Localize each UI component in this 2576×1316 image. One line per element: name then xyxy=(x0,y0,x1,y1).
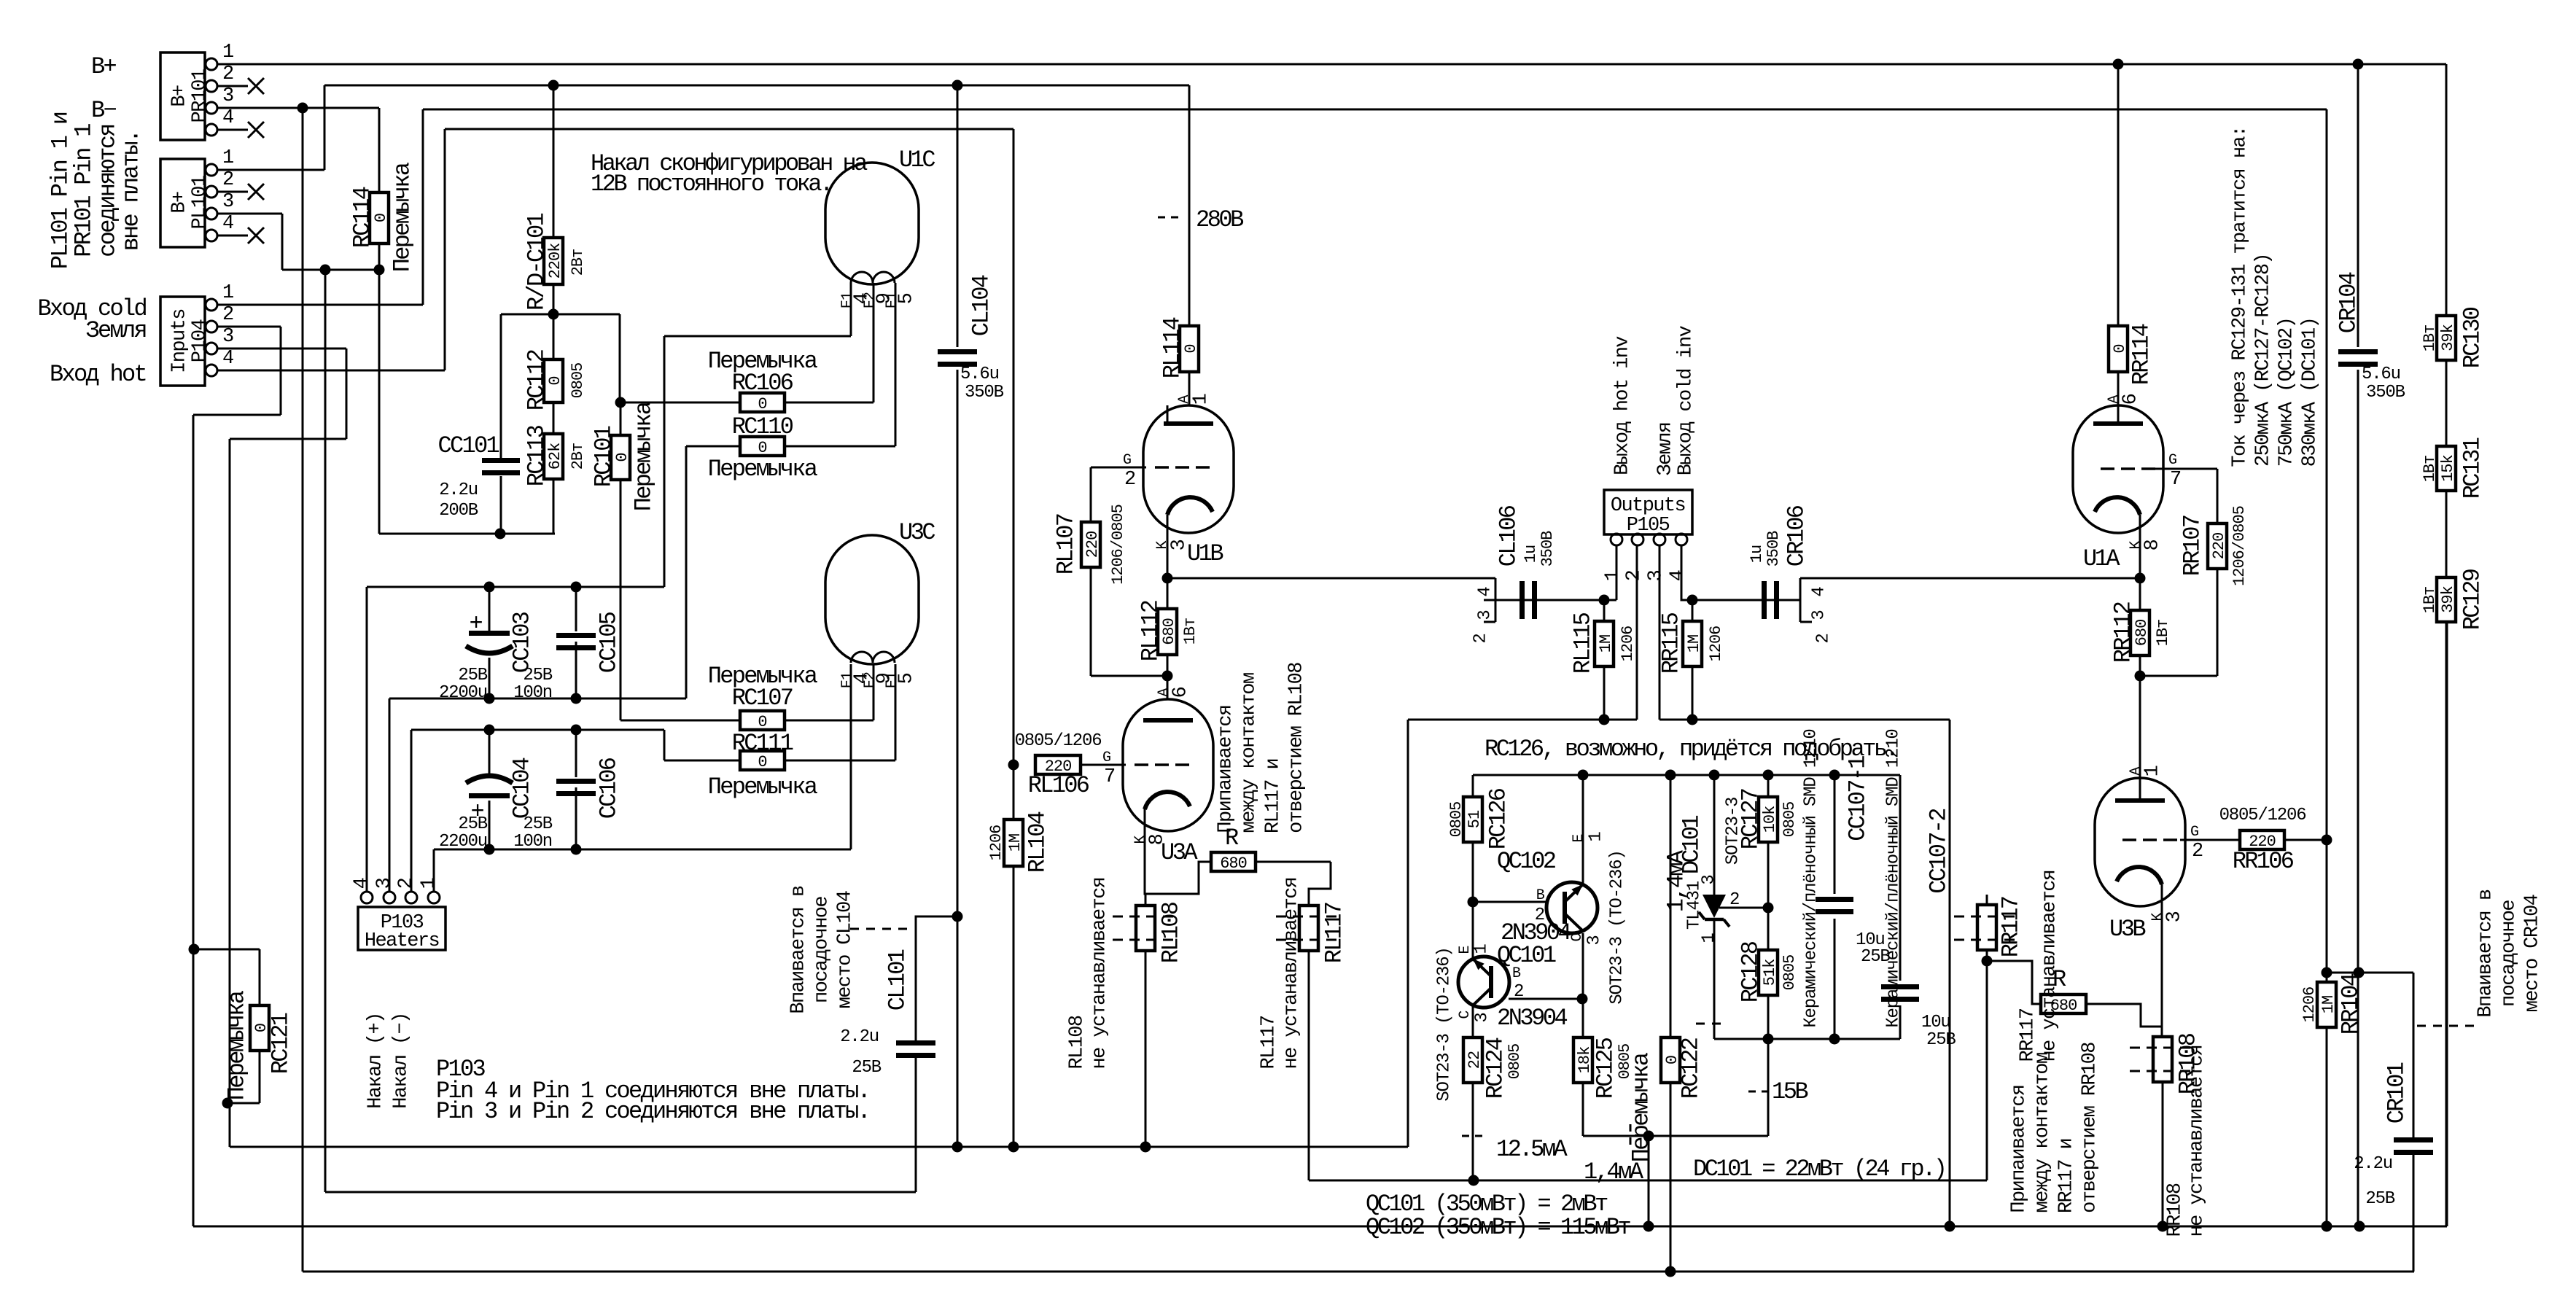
wire ground rail right / P105 pin 3 xyxy=(1659,719,1950,721)
junction (2021,1619) xyxy=(1468,1175,1479,1186)
wire B+ left bus xyxy=(324,85,1189,87)
svg-text:Pin 3 и Pin 2 соединяются вне: Pin 3 и Pin 2 соединяются вне платы. xyxy=(436,1098,869,1125)
svg-text:3: 3 xyxy=(1473,1013,1493,1022)
svg-text:U1A: U1A xyxy=(2083,545,2120,572)
svg-text:1,4мА: 1,4мА xyxy=(1584,1159,1644,1185)
svg-text:Вход hot: Вход hot xyxy=(50,361,146,388)
svg-text:RR104: RR104 xyxy=(2338,973,2365,1035)
wire PL101 pin 3 B- left xyxy=(217,213,282,215)
svg-text:4: 4 xyxy=(222,213,233,235)
wire anode net xyxy=(1714,1038,1900,1040)
voltage annotation 15V xyxy=(1748,1091,1767,1093)
tube stub bracket U1C pins 2 3 4 xyxy=(1495,578,1497,622)
svg-text:2: 2 xyxy=(396,878,418,889)
svg-text:Впаивается в: Впаивается в xyxy=(2475,889,2497,1018)
resistor RR107 220 xyxy=(2208,523,2227,569)
connector PL101 B+ left xyxy=(160,159,205,247)
resistor RC129 39k 1W xyxy=(2437,577,2456,622)
junction (2725,1318) xyxy=(1982,956,1993,967)
svg-text:CC105: CC105 xyxy=(596,612,623,673)
svg-text:CC104: CC104 xyxy=(509,758,536,819)
wire QC101 collector / RC124 leads xyxy=(1472,1007,1474,1037)
svg-text:0: 0 xyxy=(758,439,766,457)
resistor RC121 0 jumper xyxy=(250,1005,269,1051)
tube triode U3B xyxy=(2095,778,2185,906)
junction (671,958) xyxy=(484,693,495,704)
svg-text:200В: 200В xyxy=(439,501,478,521)
wire U1A cathode to output CR106 xyxy=(1800,577,2140,580)
wire node B to RC106 xyxy=(620,402,740,404)
svg-text:39k: 39k xyxy=(2439,324,2457,351)
svg-text:RL106: RL106 xyxy=(1028,772,1089,799)
svg-text:SOT23-3: SOT23-3 xyxy=(1724,798,1743,865)
svg-text:25В: 25В xyxy=(523,814,552,834)
wire right grid column / RR104 xyxy=(2326,109,2328,840)
wire CC107-1 leads xyxy=(1834,775,1836,894)
resistor RL108 not installed xyxy=(1136,906,1155,951)
svg-text:RL114: RL114 xyxy=(1159,317,1186,378)
wire divider node A xyxy=(553,284,555,314)
junction (2425,1245) xyxy=(1763,903,1774,914)
svg-text:1Вт: 1Вт xyxy=(2154,620,2172,647)
wire RC107 to U3C pin 9 xyxy=(785,720,873,722)
svg-text:P105: P105 xyxy=(1627,515,1670,537)
svg-text:350В: 350В xyxy=(2366,383,2405,402)
svg-text:830мкА (DC101): 830мкА (DC101) xyxy=(2300,318,2322,467)
resistor RL107 220 xyxy=(1081,522,1100,567)
junction (2261,1682) xyxy=(1643,1221,1654,1232)
resistor RC114 0 jumper xyxy=(370,192,389,244)
resistor RC128 51k 0805 xyxy=(1759,950,1778,995)
wire B+ right bus from PR101 pin 1 xyxy=(217,63,2446,66)
wire RR117 top stub xyxy=(1986,895,1988,905)
svg-text:6: 6 xyxy=(2120,394,2142,405)
svg-text:250мкА (RC127-RC128): 250мкА (RC127-RC128) xyxy=(2253,254,2275,467)
svg-text:1: 1 xyxy=(2142,766,2164,776)
svg-text:4: 4 xyxy=(222,107,233,129)
svg-text:RC130: RC130 xyxy=(2459,307,2486,368)
svg-text:RR117 и: RR117 и xyxy=(2056,1139,2078,1213)
wire RC101 bottom to RC107 xyxy=(620,720,740,722)
connector PR101 B+ right xyxy=(160,52,205,140)
svg-text:B+: B+ xyxy=(91,53,117,80)
resistor RL117 not installed xyxy=(1299,906,1318,951)
svg-text:1M: 1M xyxy=(1597,635,1615,653)
svg-text:E: E xyxy=(1571,834,1587,842)
svg-text:Перемычка: Перемычка xyxy=(708,456,818,483)
svg-text:CC107-1: CC107-1 xyxy=(1845,756,1872,841)
svg-text:между контактом: между контактом xyxy=(1239,673,1261,833)
wire input cold from P104 pin 1 to right channel xyxy=(217,304,423,306)
svg-text:2: 2 xyxy=(1514,982,1523,1002)
svg-text:RL117: RL117 xyxy=(1258,1016,1280,1069)
svg-text:10u: 10u xyxy=(1921,1013,1950,1032)
junction (1390,1049) xyxy=(1008,760,1019,771)
svg-text:1: 1 xyxy=(222,147,233,169)
resistor RL115 1M xyxy=(1595,621,1614,666)
junction (851,552) xyxy=(615,397,626,408)
svg-text:15k: 15k xyxy=(2439,454,2457,481)
junction (2674,1682) xyxy=(1945,1221,1956,1232)
svg-text:не устанавливается: не устанавливается xyxy=(2187,1046,2209,1237)
svg-text:2Вт: 2Вт xyxy=(569,249,587,276)
wire U1B anode lead xyxy=(1167,405,1169,424)
svg-text:не устанавливается: не устанавливается xyxy=(2039,871,2061,1062)
no-connect X PL101 pin 2 xyxy=(217,191,248,193)
resistor RC131 15k 1W xyxy=(2437,446,2456,491)
resistor RL114 0 xyxy=(1180,326,1199,372)
resistor RC130 39k 1W xyxy=(2437,316,2456,360)
wire RL104 leads xyxy=(1013,765,1015,819)
svg-text:1: 1 xyxy=(1700,933,1719,943)
svg-text:8: 8 xyxy=(1147,834,1169,845)
junction (790,1165) xyxy=(571,844,582,855)
svg-text:PR101: PR101 xyxy=(190,69,211,122)
svg-text:G: G xyxy=(2168,452,2176,469)
wire RR115 leads xyxy=(1692,600,1694,621)
svg-text:2: 2 xyxy=(1124,469,1135,491)
svg-text:5: 5 xyxy=(896,293,918,304)
svg-text:CC101: CC101 xyxy=(437,432,499,459)
svg-text:220: 220 xyxy=(2210,533,2228,560)
no-connect X PR101 pin 4 xyxy=(217,129,248,131)
wire output hot left through CL106 xyxy=(1484,599,1604,601)
wire DC101 ref pin 2 xyxy=(1719,907,1768,909)
junction (2425,1063) xyxy=(1763,770,1774,781)
resistor R/D-C101 220k 2W xyxy=(544,238,563,284)
capacitor CC106 100n 25V xyxy=(556,779,596,784)
svg-text:Перемычка: Перемычка xyxy=(1628,1052,1655,1162)
svg-text:750мкА (QC102): 750мкА (QC102) xyxy=(2276,318,2298,467)
svg-text:RL112: RL112 xyxy=(1137,601,1164,661)
not-installed dashes RL108 xyxy=(1113,916,1178,918)
tube triode U1A xyxy=(2073,405,2163,533)
junction (2321,987) xyxy=(1687,715,1698,725)
svg-text:25В: 25В xyxy=(458,666,487,685)
wire heater net D P103 pin 1 to U3C pin 4 xyxy=(434,849,851,851)
svg-text:1: 1 xyxy=(1587,832,1606,842)
svg-text:1M: 1M xyxy=(2319,996,2338,1013)
wire RR117 bottom lead xyxy=(1986,950,1988,1180)
svg-text:Припаивается: Припаивается xyxy=(1215,705,1237,833)
svg-text:U3B: U3B xyxy=(2109,916,2145,943)
svg-text:Перемычка: Перемычка xyxy=(708,663,818,690)
svg-text:SOT23-3 (TO-236): SOT23-3 (TO-236) xyxy=(1435,947,1455,1101)
svg-text:QC102: QC102 xyxy=(1497,848,1555,875)
svg-text:680: 680 xyxy=(1220,854,1247,873)
wire CC107-2 leads xyxy=(1899,775,1902,981)
wire ground left bottom bus xyxy=(230,1146,1408,1148)
junction (3191,1152) xyxy=(2322,835,2332,846)
svg-text:RC113: RC113 xyxy=(524,425,550,486)
svg-text:CL101: CL101 xyxy=(884,949,911,1011)
capacitor CC101 2.2u 200V xyxy=(482,458,520,463)
wire B- right drop xyxy=(302,108,304,1272)
svg-text:2Вт: 2Вт xyxy=(569,443,587,470)
wire CL104 leads xyxy=(957,85,959,347)
svg-text:Выход hot inv: Выход hot inv xyxy=(1612,336,1634,475)
junction (1390,1573) xyxy=(1008,1142,1019,1153)
svg-text:U1B: U1B xyxy=(1187,540,1223,567)
svg-text:25В: 25В xyxy=(1926,1030,1956,1050)
junction (266,1302) xyxy=(189,944,200,955)
svg-text:CC106: CC106 xyxy=(596,758,623,819)
svg-text:посадочное: посадочное xyxy=(812,897,833,1003)
wire RC111 to U3C pin 5 xyxy=(664,760,740,762)
svg-text:18k: 18k xyxy=(1576,1046,1594,1073)
svg-text:0805/1206: 0805/1206 xyxy=(1015,731,1102,751)
junction (759,431) xyxy=(548,309,559,320)
svg-text:2: 2 xyxy=(1729,890,1739,910)
wire P103 pin 4 riser xyxy=(366,587,368,892)
svg-text:Перемычка: Перемычка xyxy=(389,162,416,272)
wire U1A grid xyxy=(2152,468,2217,470)
svg-text:B: B xyxy=(1536,887,1545,904)
svg-text:B+: B+ xyxy=(169,85,191,107)
resistor RC101 0 jumper xyxy=(611,435,630,480)
svg-text:8: 8 xyxy=(2142,540,2164,550)
junction (2905,88) xyxy=(2113,59,2124,70)
svg-text:RC129: RC129 xyxy=(2459,569,2486,630)
svg-text:CC107-2: CC107-2 xyxy=(1926,809,1953,894)
svg-text:1,4мА: 1,4мА xyxy=(1663,849,1690,912)
svg-text:1206: 1206 xyxy=(1619,626,1637,662)
resistor RL104 1M xyxy=(1004,819,1023,866)
wire RL108 leads xyxy=(1145,894,1147,906)
svg-text:RL104: RL104 xyxy=(1024,811,1051,873)
svg-text:U1C: U1C xyxy=(899,147,935,174)
junction (790,805) xyxy=(571,582,582,593)
wire R 680 right lead xyxy=(1256,861,1331,863)
wire to RC101 top xyxy=(619,314,621,402)
wire CC105 leads xyxy=(575,587,577,631)
wire U1B grid xyxy=(1091,467,1146,469)
junction (790,1001) xyxy=(571,725,582,736)
resistor RC110 0 jumper xyxy=(740,437,785,456)
svg-text:C: C xyxy=(1569,933,1586,942)
capacitor CC103 2200u 25V electrolytic xyxy=(469,631,510,636)
svg-text:0805: 0805 xyxy=(1781,955,1799,991)
svg-text:2: 2 xyxy=(1814,634,1834,643)
svg-text:350В: 350В xyxy=(1764,531,1783,567)
svg-text:2200u: 2200u xyxy=(439,683,487,703)
svg-text:G: G xyxy=(2190,824,2198,841)
wire RL114 anode supply column 280V xyxy=(1188,85,1191,326)
wire ground left riser to output rail xyxy=(1407,720,1409,1147)
svg-text:Впаивается в: Впаивается в xyxy=(788,886,810,1014)
svg-text:RL108: RL108 xyxy=(1067,1016,1089,1069)
svg-text:4: 4 xyxy=(1668,570,1689,581)
svg-text:RR114: RR114 xyxy=(2128,324,2155,385)
wire bleeder column RC130-RC131-RC129 xyxy=(2445,64,2448,1226)
svg-text:0: 0 xyxy=(758,713,766,731)
svg-text:RL107: RL107 xyxy=(1053,514,1080,575)
svg-text:Heaters: Heaters xyxy=(365,930,439,952)
wire DC101 cathode and anode leads xyxy=(1713,775,1716,895)
junction (671,1001) xyxy=(484,725,495,736)
svg-text:RC112: RC112 xyxy=(524,350,550,410)
junction (446,370) xyxy=(320,265,331,276)
svg-text:B−: B− xyxy=(91,97,117,124)
wire ground right riser xyxy=(1949,720,1951,1226)
wire U1B cathode to output CL106 xyxy=(1167,577,1495,580)
wire CC106 leads xyxy=(575,730,577,777)
wire RC114 bottom lead to B- left xyxy=(378,244,381,270)
svg-text:CL104: CL104 xyxy=(968,275,995,336)
svg-text:3: 3 xyxy=(222,191,233,213)
svg-text:3: 3 xyxy=(1585,935,1605,945)
svg-text:0805: 0805 xyxy=(569,363,587,399)
svg-text:2.2u: 2.2u xyxy=(840,1027,879,1047)
wire U3B cathode lead xyxy=(2161,884,2163,1037)
svg-text:1Вт: 1Вт xyxy=(2421,587,2439,614)
svg-text:вне платы.: вне платы. xyxy=(118,131,145,251)
svg-text:3: 3 xyxy=(1169,540,1191,550)
svg-text:39k: 39k xyxy=(2439,585,2457,612)
svg-text:1206/0805: 1206/0805 xyxy=(2230,506,2249,586)
svg-text:1u: 1u xyxy=(1522,545,1540,563)
wire RL112 leads and U3A anode xyxy=(1167,578,1169,609)
svg-text:1206: 1206 xyxy=(1707,626,1725,662)
svg-text:2: 2 xyxy=(1624,570,1646,581)
junction (3234,88) xyxy=(2353,59,2364,70)
junction (1313,1257) xyxy=(952,911,963,922)
wire RL107 leads xyxy=(1090,467,1092,522)
resistor RR115 1M xyxy=(1683,621,1702,666)
svg-text:отверстием RR108: отверстием RR108 xyxy=(2079,1043,2101,1213)
resistor RC106 0 jumper xyxy=(740,393,785,412)
wire ground right from P104 pin 2 xyxy=(217,326,281,328)
svg-text:1: 1 xyxy=(419,878,440,889)
svg-text:CL106: CL106 xyxy=(1495,505,1522,566)
svg-text:DC101 = 22мВт (24 гр.): DC101 = 22мВт (24 гр.) xyxy=(1693,1156,1945,1183)
svg-text:350В: 350В xyxy=(965,383,1004,402)
wire ground left from P104 pin 3 xyxy=(217,348,346,350)
junction (312,1513) xyxy=(222,1098,233,1109)
svg-text:4: 4 xyxy=(1476,587,1495,597)
svg-text:1: 1 xyxy=(222,42,233,63)
svg-text:1: 1 xyxy=(1603,570,1624,581)
svg-text:1: 1 xyxy=(1191,394,1213,405)
junction (671,805) xyxy=(484,582,495,593)
svg-text:RC122: RC122 xyxy=(1678,1038,1705,1099)
wire P105 pin 4 to output cold xyxy=(1681,545,1692,600)
wire QC102 base xyxy=(1473,901,1546,903)
junction (3191,1334) xyxy=(2322,967,2332,978)
svg-text:RR117: RR117 xyxy=(1998,897,2025,957)
resistor RR114 0 xyxy=(2109,326,2128,372)
svg-text:Керамический/плёночный SMD 121: Керамический/плёночный SMD 1210 xyxy=(1884,729,1904,1027)
svg-text:RC126, возможно, придётся подо: RC126, возможно, придётся подобрать. xyxy=(1484,736,1896,763)
svg-text:1Вт: 1Вт xyxy=(2421,325,2439,352)
wire RC110 left lead down xyxy=(685,446,688,698)
svg-text:посадочное: посадочное xyxy=(2499,900,2521,1007)
resistor RC124 22 0805 xyxy=(1463,1037,1482,1083)
wire B- net from PR101 pin 3 xyxy=(217,107,379,109)
svg-text:Припаивается: Припаивается xyxy=(2009,1085,2031,1212)
junction (2170,1370) xyxy=(1577,994,1588,1005)
capacitor CC104 2200u 25V electrolytic xyxy=(466,776,513,783)
svg-text:3: 3 xyxy=(1476,610,1495,620)
wire RR107 leads xyxy=(2217,469,2219,523)
svg-text:RC110: RC110 xyxy=(732,413,793,440)
resistor R 680 right cathode xyxy=(2041,994,2086,1013)
svg-text:350В: 350В xyxy=(1538,531,1557,567)
capacitor CR106 1u 350V output xyxy=(1762,581,1767,619)
resistor RC112 0 0805 xyxy=(544,359,563,402)
svg-text:2: 2 xyxy=(222,169,233,191)
svg-text:6: 6 xyxy=(1170,687,1192,698)
svg-text:51: 51 xyxy=(1466,810,1484,828)
svg-text:RL108: RL108 xyxy=(1158,902,1185,963)
svg-text:RC126: RC126 xyxy=(1485,788,1512,849)
resistor RC126 51 0805 xyxy=(1463,797,1482,842)
resistor RR112 680 1W xyxy=(2131,610,2149,655)
junction (3236,1682) xyxy=(2354,1221,2365,1232)
svg-text:1Вт: 1Вт xyxy=(2421,456,2439,483)
wire RL115 leads xyxy=(1603,600,1606,621)
svg-text:RC131: RC131 xyxy=(2459,437,2486,499)
svg-text:Земля: Земля xyxy=(85,317,146,344)
wire CL101 top lead xyxy=(916,916,957,1042)
svg-text:1206: 1206 xyxy=(2300,987,2319,1023)
tube stub bracket U3C pins 2 3 4 xyxy=(1799,578,1802,622)
resistor RR117 not installed xyxy=(1977,905,1996,950)
wire B- right bottom bus xyxy=(303,1271,2414,1273)
svg-text:не устанавливается: не устанавливается xyxy=(1089,878,1111,1070)
wire U3A cathode to R 680 xyxy=(1145,808,1211,894)
svg-text:4: 4 xyxy=(1810,587,1829,597)
wire RC126 leads / QC101 emitter xyxy=(1472,775,1474,797)
capacitor CC107-2 10u 25V xyxy=(1881,984,1919,989)
wire R 680 right to U3B cathode xyxy=(2086,1004,2162,1027)
wire RC112-RC113 column xyxy=(553,314,555,359)
wire CR104 leads xyxy=(2357,64,2359,347)
junction (2171,1063) xyxy=(1578,770,1589,781)
junction (2020,1237) xyxy=(1468,897,1479,908)
tube triode U1B xyxy=(1143,405,1234,533)
svg-text:RC128: RC128 xyxy=(1738,941,1764,1002)
svg-text:Керамический/плёночный SMD 121: Керамический/плёночный SMD 1210 xyxy=(1802,729,1821,1027)
svg-text:2.2u: 2.2u xyxy=(2354,1154,2392,1174)
svg-text:1206: 1206 xyxy=(987,825,1005,861)
junction (759,117) xyxy=(548,80,559,91)
wire RL106 leads xyxy=(1035,764,1081,766)
resistor R 680 left cathode xyxy=(1211,852,1256,871)
tube triode U3A xyxy=(1123,699,1213,831)
resistor RR106 220 grid stopper xyxy=(2240,830,2284,849)
wire 15V net xyxy=(1583,1135,1768,1137)
wire heater net B P103 pin 3 xyxy=(389,698,686,700)
svg-text:SOT23-3 (TO-236): SOT23-3 (TO-236) xyxy=(1608,850,1627,1004)
wire RC129 bottom to ground bus xyxy=(2446,622,2448,1226)
svg-text:RL115: RL115 xyxy=(1570,612,1597,674)
dashed pointer CR104 footprint xyxy=(2417,1025,2479,1027)
junction (2200,987) xyxy=(1599,715,1610,725)
svg-text:7: 7 xyxy=(1104,766,1115,788)
junction (2935,793) xyxy=(2135,573,2146,584)
svg-text:место CL104: место CL104 xyxy=(835,891,857,1008)
not-installed dashes RR117 xyxy=(1954,916,2020,918)
svg-text:1M: 1M xyxy=(1006,834,1024,852)
svg-text:место CR104: место CR104 xyxy=(2522,895,2544,1012)
wire RC121 leads xyxy=(194,949,260,951)
svg-text:1: 1 xyxy=(1472,944,1492,954)
junction (1313,1573) xyxy=(952,1142,963,1153)
svg-text:RL117: RL117 xyxy=(1321,903,1348,963)
junction (415,148) xyxy=(297,103,308,114)
voltage annotation 280V xyxy=(1158,217,1179,219)
